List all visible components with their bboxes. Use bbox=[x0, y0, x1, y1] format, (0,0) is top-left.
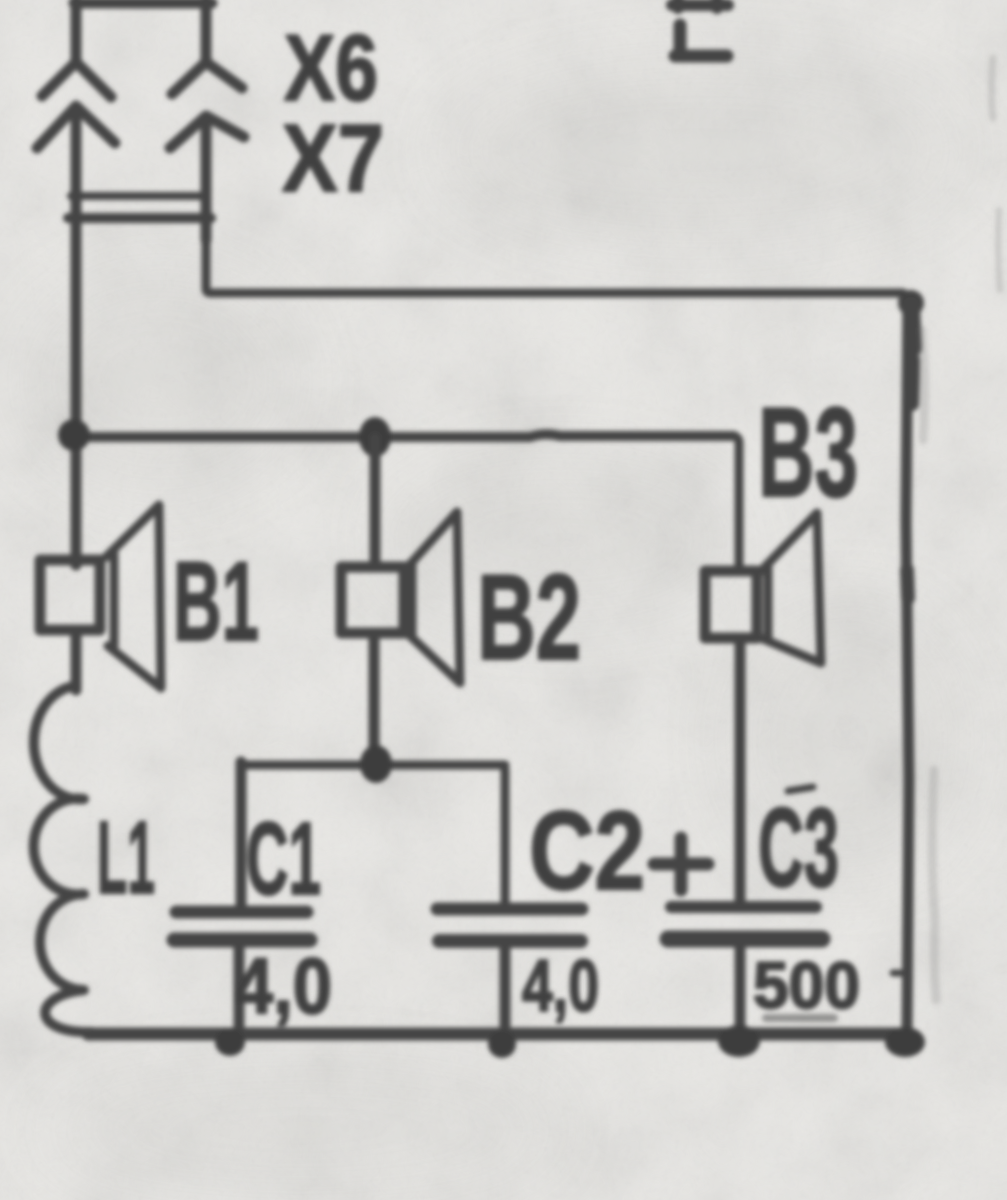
wire B2 drop upper bbox=[370, 438, 381, 567]
speaker B2 cone bbox=[405, 512, 460, 683]
svg-text:L1: L1 bbox=[97, 800, 155, 915]
connector X7 pin right bbox=[170, 116, 244, 240]
svg-text:C3: C3 bbox=[758, 785, 839, 910]
wire top bus bbox=[74, 434, 734, 437]
node C2 bottom junction dot bbox=[488, 1030, 516, 1058]
speaker B2 frame bbox=[341, 567, 404, 633]
svg-text:B2: B2 bbox=[477, 549, 581, 685]
svg-text:B1: B1 bbox=[173, 539, 259, 664]
speaker B1 frame bbox=[40, 560, 100, 630]
node C3 bottom junction dot bbox=[718, 1025, 760, 1057]
wire right side small tick bbox=[893, 970, 906, 977]
text fragment top right bar bbox=[672, 0, 728, 8]
polarity plus of C3 bbox=[654, 838, 708, 890]
svg-text:X7: X7 bbox=[282, 105, 384, 212]
label L1 bbox=[97, 800, 155, 915]
wire B1 to L1 bbox=[71, 630, 82, 690]
connector X6 socket right bbox=[172, 62, 242, 94]
svg-text:C2: C2 bbox=[529, 789, 645, 913]
svg-text:C1: C1 bbox=[246, 801, 321, 916]
inductor L1 bbox=[34, 686, 92, 1032]
svg-text:500: 500 bbox=[753, 948, 860, 1022]
speaker B3 cone bbox=[759, 513, 821, 663]
label B3 bbox=[758, 381, 858, 523]
value 500 of C3 bbox=[753, 948, 860, 1022]
label C3 overbar mark bbox=[788, 787, 813, 791]
label X6 bbox=[284, 15, 378, 120]
wire right side mid knot bbox=[907, 570, 908, 598]
node B junction dot bbox=[359, 417, 391, 457]
wire B2 drop lower bbox=[369, 633, 380, 763]
node C1 bottom junction dot bbox=[215, 1028, 245, 1056]
connector X6 socket left bbox=[42, 62, 111, 97]
wire C1 top bridge bbox=[240, 761, 505, 770]
wire cable jumper upper bbox=[71, 192, 207, 200]
wire bottom bus bbox=[88, 1028, 908, 1041]
label C2 bbox=[529, 789, 645, 913]
svg-text:4,0: 4,0 bbox=[234, 941, 332, 1030]
label B1 bbox=[173, 539, 259, 664]
value 4,0 of C1 bbox=[234, 941, 332, 1030]
label X7 bbox=[282, 105, 384, 212]
wire B3 drop from top bus bbox=[734, 436, 739, 571]
node right corner blob bbox=[885, 1027, 925, 1057]
node A junction dot bbox=[58, 419, 90, 451]
connector X7 pin left bbox=[37, 106, 115, 224]
capacitor C2 bbox=[437, 903, 582, 916]
value 4,0 of C2 bbox=[522, 946, 599, 1027]
svg-text:B3: B3 bbox=[758, 381, 858, 523]
text fragment top right L bbox=[675, 25, 727, 56]
speaker B3 frame bbox=[705, 571, 757, 638]
capacitor C3 bbox=[671, 901, 816, 913]
paper smudges right margin bbox=[922, 58, 1000, 1000]
svg-text:4,0: 4,0 bbox=[522, 946, 599, 1027]
label C1 bbox=[246, 801, 321, 916]
wire right side thickening blob bbox=[898, 290, 924, 316]
wire B3 to C3 bbox=[735, 638, 746, 900]
wire left input drop bbox=[71, 222, 82, 565]
label B2 bbox=[477, 549, 581, 685]
wire cable jumper lower bbox=[68, 213, 211, 223]
capacitor C1 bbox=[236, 762, 247, 906]
wire right input, top run and right side drop bbox=[206, 238, 903, 293]
capacitor C2 feed wire bbox=[500, 765, 505, 903]
speaker B1 cone bbox=[106, 505, 161, 688]
node C1 top junction dot bbox=[360, 745, 392, 783]
smudge under 500 bbox=[766, 1014, 834, 1022]
wire top box bbox=[74, 0, 212, 64]
label C3 bbox=[758, 785, 839, 910]
